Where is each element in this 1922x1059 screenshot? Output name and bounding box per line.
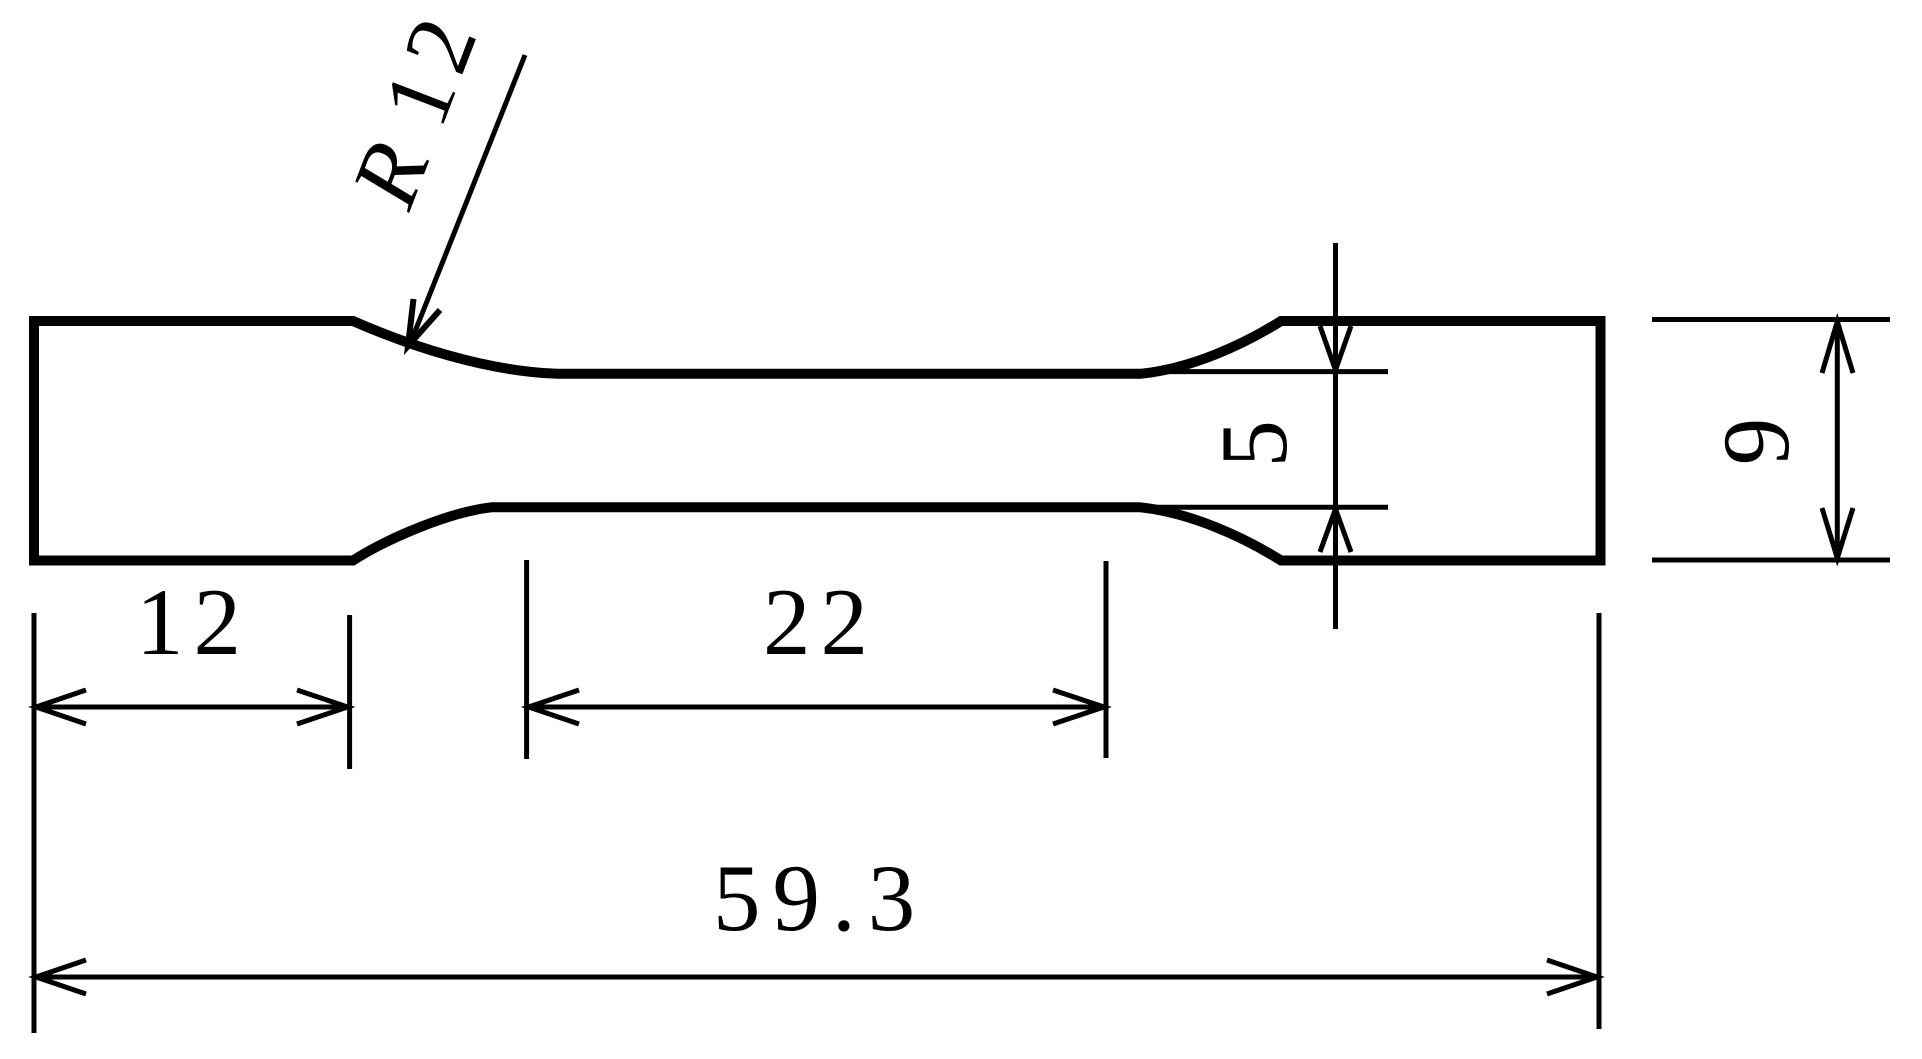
svg-text:22: 22 bbox=[763, 569, 878, 675]
arrow right of dim 12 bbox=[297, 690, 348, 724]
svg-text:12: 12 bbox=[136, 569, 251, 675]
extension line right of 22 bbox=[1104, 561, 1109, 758]
tick line bottom of dim 5 bbox=[1145, 505, 1388, 510]
svg-text:9: 9 bbox=[1703, 418, 1809, 466]
arrow right of dim 59.3 bbox=[1547, 960, 1597, 994]
extension line bottom of dim 9 bbox=[1652, 558, 1890, 563]
leader line for R12 bbox=[410, 55, 525, 344]
tick line top of dim 5 bbox=[1145, 369, 1388, 374]
extension line right (59.3) bbox=[1597, 613, 1602, 1029]
arrow top of dim 5 (pointing down) bbox=[1320, 326, 1351, 370]
dimension line 5 (vertical) bbox=[1333, 243, 1338, 629]
extension line left of 22 bbox=[524, 560, 529, 759]
extension line top of dim 9 bbox=[1652, 317, 1890, 322]
label R 12 (radius callout, rotated) bbox=[331, 0, 500, 221]
svg-text:5: 5 bbox=[1201, 420, 1307, 468]
svg-text:59.3: 59.3 bbox=[713, 845, 927, 951]
arrow left of dim 22 bbox=[529, 690, 579, 724]
arrow left of dim 12 bbox=[36, 690, 86, 724]
arrow bottom of dim 5 (pointing up) bbox=[1320, 509, 1351, 552]
dimension line 12 bbox=[34, 705, 350, 710]
specimen outline (dog-bone tensile specimen) bbox=[34, 321, 1601, 561]
arrow top of dim 9 (pointing up) bbox=[1822, 322, 1853, 374]
arrow right of dim 22 bbox=[1053, 690, 1104, 724]
leader arrowhead bbox=[408, 299, 440, 346]
extension line right of 12 bbox=[347, 615, 352, 769]
dimension line 22 bbox=[527, 705, 1106, 710]
dimension line 59.3 bbox=[34, 975, 1599, 980]
arrow bottom of dim 9 (pointing down) bbox=[1822, 508, 1853, 558]
arrow left of dim 59.3 bbox=[36, 960, 86, 994]
dimension line 9 (vertical) bbox=[1835, 320, 1840, 561]
extension line left (shared 12 / 59.3) bbox=[32, 613, 37, 1033]
